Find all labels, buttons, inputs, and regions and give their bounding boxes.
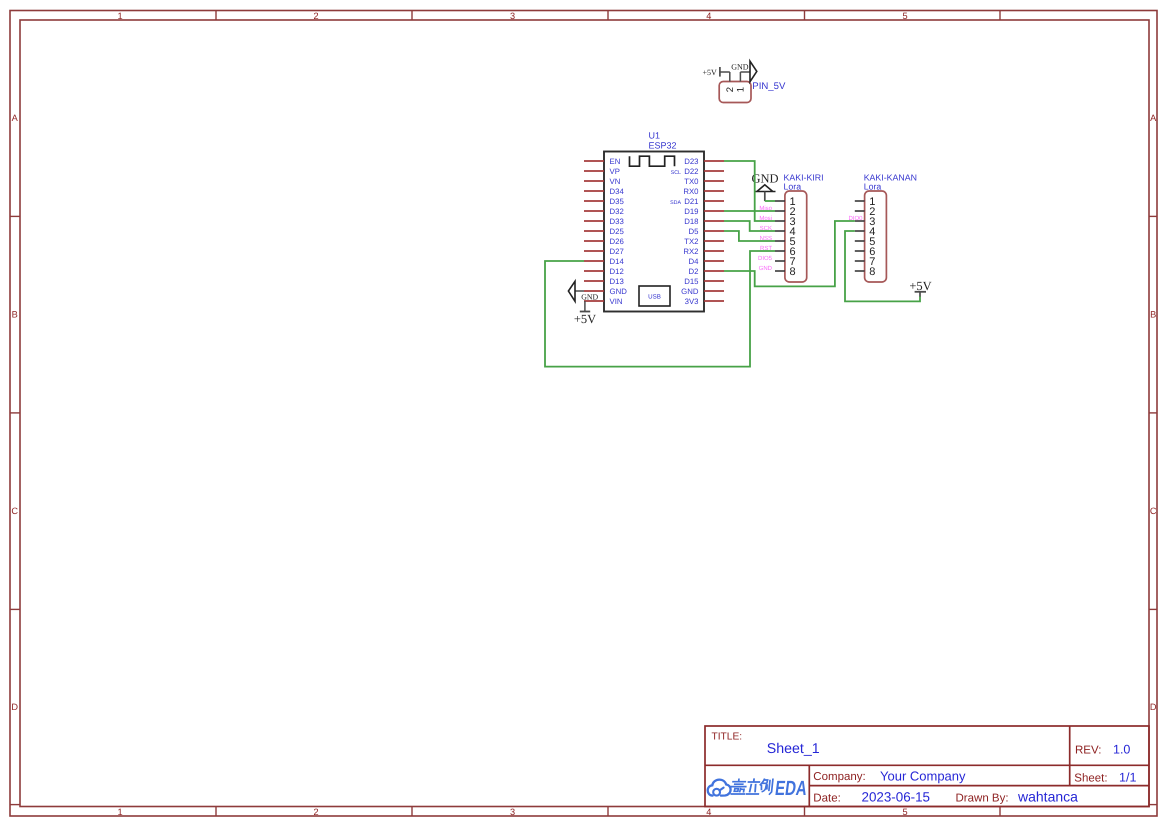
svg-text:D12: D12 bbox=[610, 267, 624, 276]
connector PIN_5V bbox=[719, 81, 786, 103]
power flag +5V (U1 VIN pin) bbox=[574, 301, 596, 326]
connector KAKI-KIRI Lora bbox=[784, 173, 824, 283]
KAKI-KIRI pin 4 bbox=[775, 226, 796, 238]
svg-text:DIO5: DIO5 bbox=[758, 255, 773, 262]
U1 left pin D34 bbox=[584, 187, 624, 196]
KAKI-KIRI pin 5 bbox=[775, 236, 796, 248]
svg-text:SCL: SCL bbox=[671, 170, 681, 176]
svg-text:B: B bbox=[12, 310, 18, 320]
U1 left pin D13 bbox=[584, 277, 624, 286]
KAKI-KANAN pin 5 bbox=[855, 236, 876, 248]
svg-text:+5V: +5V bbox=[574, 312, 596, 326]
svg-text:1.0: 1.0 bbox=[1113, 743, 1130, 757]
svg-text:GND: GND bbox=[610, 287, 628, 296]
op-amp U1 ESP32 body bbox=[604, 131, 704, 312]
KAKI-KANAN pin 3 bbox=[855, 216, 876, 228]
U1 left pin D26 bbox=[584, 237, 624, 246]
U1 right pin 3V3 bbox=[685, 297, 724, 306]
svg-text:D33: D33 bbox=[610, 217, 624, 226]
U1 left pin GND bbox=[584, 287, 627, 296]
svg-text:C: C bbox=[1150, 506, 1157, 516]
svg-text:D34: D34 bbox=[610, 187, 625, 196]
U1 right pin D15 bbox=[684, 277, 724, 286]
svg-text:A: A bbox=[1150, 113, 1157, 123]
svg-text:GND: GND bbox=[581, 293, 598, 302]
svg-text:D13: D13 bbox=[610, 277, 624, 286]
power flag +5V (PIN_5V pin 2) bbox=[703, 67, 730, 77]
U1 left pin EN bbox=[584, 157, 620, 166]
svg-text:D25: D25 bbox=[610, 227, 625, 236]
U1 right pin D22 bbox=[684, 167, 724, 176]
svg-text:EDA: EDA bbox=[774, 777, 809, 800]
U1 right pin TX2 bbox=[684, 237, 724, 246]
svg-text:TITLE:: TITLE: bbox=[712, 732, 743, 743]
svg-text:TX0: TX0 bbox=[684, 177, 699, 186]
U1 right pin D4 bbox=[689, 257, 724, 266]
power flag +5V (KAKI-KANAN pin 4 net) bbox=[909, 279, 931, 297]
wire U1 D14 to KAKI-KIRI pin 6 RST (bottom loop) bbox=[545, 251, 775, 367]
svg-text:RX2: RX2 bbox=[683, 247, 698, 256]
svg-text:A: A bbox=[12, 113, 19, 123]
svg-text:B: B bbox=[1150, 310, 1156, 320]
svg-text:1: 1 bbox=[117, 11, 122, 21]
svg-text:1/1: 1/1 bbox=[1119, 770, 1137, 784]
svg-text:Your Company: Your Company bbox=[880, 768, 966, 783]
KAKI-KIRI pin 6 bbox=[775, 246, 796, 258]
svg-text:D27: D27 bbox=[610, 247, 624, 256]
connector KAKI-KANAN Lora bbox=[864, 173, 917, 283]
KAKI-KANAN pin 4 bbox=[855, 226, 876, 238]
svg-text:PIN_5V: PIN_5V bbox=[752, 81, 786, 92]
svg-text:D19: D19 bbox=[684, 207, 698, 216]
svg-text:D21: D21 bbox=[684, 197, 698, 206]
svg-text:4: 4 bbox=[706, 807, 711, 817]
wire U1 D18 to KAKI-KIRI pin 4 SCK bbox=[724, 221, 775, 231]
svg-text:D15: D15 bbox=[684, 277, 699, 286]
U1 left pin D35 bbox=[584, 197, 624, 206]
svg-text:3V3: 3V3 bbox=[685, 297, 699, 306]
KAKI-KIRI pin 3 bbox=[775, 216, 796, 228]
svg-text:REV:: REV: bbox=[1075, 745, 1101, 757]
svg-text:VIN: VIN bbox=[610, 297, 623, 306]
U1 right pin RX2 bbox=[683, 247, 724, 256]
svg-text:GND: GND bbox=[759, 265, 773, 272]
ground flag GND (PIN_5V pin 1) bbox=[731, 61, 757, 81]
U1 left pin D27 bbox=[584, 247, 624, 256]
svg-text:Drawn By:: Drawn By: bbox=[956, 792, 1009, 804]
svg-text:USB: USB bbox=[648, 294, 661, 301]
svg-text:D26: D26 bbox=[610, 237, 624, 246]
svg-text:TX2: TX2 bbox=[684, 237, 698, 246]
U1 left pin D25 bbox=[584, 227, 624, 236]
U1 left pin D12 bbox=[584, 267, 624, 276]
svg-text:D32: D32 bbox=[610, 207, 624, 216]
svg-text:D22: D22 bbox=[684, 167, 698, 176]
U1 right pin D18 bbox=[684, 217, 724, 226]
U1 right pin D21 bbox=[684, 197, 724, 206]
svg-text:5: 5 bbox=[902, 807, 907, 817]
svg-text:D14: D14 bbox=[610, 257, 625, 266]
svg-text:D2: D2 bbox=[689, 267, 699, 276]
svg-text:4: 4 bbox=[706, 11, 711, 21]
ground flag GND (KAKI-KIRI pin 1) bbox=[751, 172, 778, 201]
wire +5V flag to KAKI-KANAN pin 4 bbox=[845, 231, 920, 301]
svg-text:3: 3 bbox=[510, 11, 515, 21]
KAKI-KIRI pin 2 bbox=[775, 206, 796, 218]
wire GND flag to KAKI-KIRI pin 1 bbox=[765, 200, 775, 202]
svg-text:SDA: SDA bbox=[670, 200, 681, 206]
svg-text:Lora: Lora bbox=[784, 181, 802, 191]
U1 right pin RX0 bbox=[683, 187, 724, 196]
U1 left pin D32 bbox=[584, 207, 624, 216]
svg-text:Company:: Company: bbox=[813, 771, 865, 783]
svg-text:5: 5 bbox=[902, 11, 907, 21]
svg-text:C: C bbox=[11, 506, 18, 516]
U1 left pin D14 bbox=[584, 257, 624, 266]
svg-text:8: 8 bbox=[790, 266, 796, 278]
KAKI-KANAN pin 7 bbox=[855, 256, 876, 268]
svg-text:VN: VN bbox=[610, 177, 621, 186]
pin 1 of PIN_5V bbox=[735, 72, 746, 92]
JLCEDA logo bbox=[708, 777, 809, 800]
U1 right pin GND bbox=[681, 287, 724, 296]
svg-text:D5: D5 bbox=[689, 227, 700, 236]
svg-text:2: 2 bbox=[313, 807, 318, 817]
U1 right pin TX0 bbox=[684, 177, 724, 186]
KAKI-KIRI pin 8 bbox=[775, 266, 796, 278]
svg-text:2: 2 bbox=[725, 87, 736, 92]
svg-text:1: 1 bbox=[735, 87, 746, 92]
U1 right pin D19 bbox=[684, 207, 724, 216]
svg-text:3: 3 bbox=[510, 807, 515, 817]
KAKI-KIRI pin 1 bbox=[775, 196, 796, 208]
svg-text:Sheet_1: Sheet_1 bbox=[767, 741, 820, 757]
svg-text:D4: D4 bbox=[689, 257, 700, 266]
svg-text:EN: EN bbox=[610, 157, 621, 166]
KAKI-KANAN pin 2 bbox=[855, 206, 876, 218]
svg-text:GND: GND bbox=[681, 287, 699, 296]
U1 left pin VN bbox=[584, 177, 620, 186]
KAKI-KANAN pin 8 bbox=[855, 266, 876, 278]
svg-text:VP: VP bbox=[610, 167, 620, 176]
U1 right pin D5 bbox=[689, 227, 724, 236]
svg-text:D23: D23 bbox=[684, 157, 698, 166]
wire U1 D23 to KAKI-KIRI pin 3 Mosi bbox=[724, 161, 775, 221]
USB block inside U1 bbox=[639, 286, 670, 306]
KAKI-KANAN pin 6 bbox=[855, 246, 876, 258]
svg-text:2: 2 bbox=[313, 11, 318, 21]
svg-text:wahtanca: wahtanca bbox=[1017, 788, 1078, 804]
svg-text:1: 1 bbox=[117, 807, 122, 817]
U1 right pin D23 bbox=[684, 157, 724, 166]
U1 left pin VP bbox=[584, 167, 620, 176]
svg-text:Sheet:: Sheet: bbox=[1074, 772, 1107, 784]
svg-text:D: D bbox=[11, 702, 18, 712]
wire U1 D5 to KAKI-KIRI pin 5 NSS bbox=[724, 231, 775, 241]
U1 left pin VIN bbox=[584, 297, 623, 306]
svg-text:GND: GND bbox=[731, 63, 749, 72]
svg-text:D35: D35 bbox=[610, 197, 625, 206]
wire U1 D2 to KAKI-KANAN pin 3 DIO0 bbox=[724, 221, 855, 286]
ground flag GND (U1 GND pin) bbox=[568, 281, 598, 301]
wire U1 D19 to KAKI-KIRI pin 2 Miso bbox=[724, 210, 775, 212]
svg-text:RX0: RX0 bbox=[683, 187, 699, 196]
KAKI-KANAN pin 1 bbox=[855, 196, 876, 208]
KAKI-KIRI pin 7 bbox=[775, 256, 796, 268]
U1 left pin D33 bbox=[584, 217, 624, 226]
svg-text:2023-06-15: 2023-06-15 bbox=[862, 789, 931, 804]
U1 right pin D2 bbox=[689, 267, 724, 276]
svg-text:8: 8 bbox=[869, 266, 875, 278]
antenna squiggle inside U1 bbox=[630, 156, 675, 166]
pin 2 of PIN_5V bbox=[725, 72, 736, 92]
svg-text:Lora: Lora bbox=[864, 181, 882, 191]
svg-text:ESP32: ESP32 bbox=[649, 141, 677, 151]
svg-text:Date:: Date: bbox=[813, 792, 841, 804]
title block bbox=[705, 726, 1149, 807]
svg-text:D18: D18 bbox=[684, 217, 698, 226]
svg-text:U1: U1 bbox=[649, 131, 661, 141]
svg-text:+5V: +5V bbox=[703, 68, 718, 77]
svg-text:D: D bbox=[1150, 702, 1157, 712]
